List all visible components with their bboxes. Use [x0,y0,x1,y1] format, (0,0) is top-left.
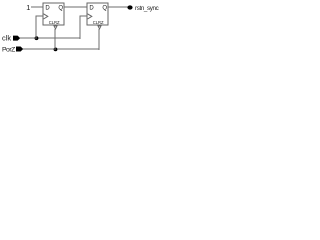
svg-text:Q: Q [102,6,107,12]
wire PorZ to U1 CLRZ [54,29,56,50]
svg-text:clk: clk [2,34,11,43]
svg-text:D: D [45,6,50,12]
svg-text:CLRZ: CLRZ [49,20,60,25]
svg-text:rstn_sync: rstn_sync [135,5,159,12]
wire clk to U2 clock [80,16,87,39]
svg-text:CLRZ: CLRZ [93,20,104,25]
U2 CLRZ active-low wedge [98,26,101,29]
U1 clock triangle [44,14,48,19]
flip-flop U2 box [87,3,108,25]
wire clk horizontal [20,37,80,39]
input port marker clk [13,36,20,41]
wire clk to U1 clock [36,16,43,39]
wire constant-1 to U1 D [31,6,43,8]
svg-text:1: 1 [26,3,30,12]
wire U1 Q to U2 D [64,6,87,8]
input port marker PorZ [16,47,23,52]
U1 CLRZ active-low wedge [54,26,57,29]
output port marker rstn_sync [127,5,132,9]
svg-text:Q: Q [58,6,63,12]
junction dot PorZ branch U1 [54,48,58,52]
wire PorZ horizontal [23,48,99,50]
svg-text:D: D [89,6,94,12]
wire U2 Q to output port [108,6,128,8]
flip-flop U1 box [43,3,64,25]
junction dot clk branch U1 [35,36,39,40]
svg-text:PorZ: PorZ [2,47,15,54]
wire PorZ to U2 CLRZ [98,29,100,50]
U2 clock triangle [88,14,92,19]
